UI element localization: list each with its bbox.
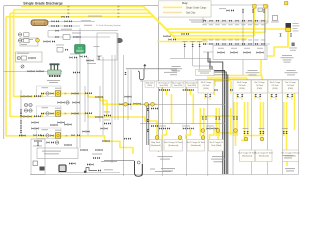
wire yellow left vert 2 <box>10 13 55 116</box>
valve pair lr b <box>259 131 261 134</box>
valve pair on lineD <box>62 16 65 18</box>
valve pair under y37 <box>44 40 47 42</box>
svg-text:No.1 Cargo: No.1 Cargo <box>270 82 281 84</box>
text right edge 1 <box>289 47 297 50</box>
text no1wbt <box>283 59 292 60</box>
pump circles left column <box>24 103 27 106</box>
yellow cap riser 1 <box>253 5 257 9</box>
vent arrow <box>144 64 146 69</box>
svg-text:Tank: Tank <box>78 48 82 50</box>
wire yellow tank drop b <box>230 81 232 94</box>
dark box bl <box>40 167 45 171</box>
label box no3 wbt <box>196 70 215 76</box>
text no1wbt r2 <box>287 74 295 75</box>
valve trio tanklow c <box>207 127 210 129</box>
wire riser L3 <box>200 42 228 75</box>
valve top v1 <box>242 10 244 13</box>
text lr lbl <box>243 127 249 130</box>
text manifold lower lbl <box>261 39 265 42</box>
text manifold upper lbl <box>228 23 232 26</box>
wire yellow top hook b <box>186 86 191 95</box>
wire manifold h1 <box>203 20 268 22</box>
valve row manifold lower <box>203 43 206 45</box>
wire manifold h2 <box>203 43 270 45</box>
valve cluster x88 y113 <box>85 112 88 114</box>
valve left col 0b <box>20 113 22 116</box>
svg-text:No.3 Cargo: No.3 Cargo <box>201 82 212 84</box>
ship manifold connection <box>286 23 292 28</box>
text manifold lower lbl <box>215 39 219 42</box>
valve pair y97 right a <box>125 96 128 98</box>
valve tankcol b <box>147 119 149 122</box>
valve riser <box>184 44 186 47</box>
valve pair above train3 b <box>51 124 54 126</box>
text manifold lower lbl <box>228 39 232 42</box>
text no2 wbt mid <box>212 156 224 157</box>
wire yellow lower pair 3 <box>233 102 235 136</box>
wire yellow tank feed row a <box>207 75 262 77</box>
tank mid line 1 <box>140 103 225 105</box>
tank divider x265 upper <box>264 23 266 60</box>
zigzag pipe bottom <box>84 168 97 173</box>
valve pair x112col a <box>104 114 107 116</box>
text no1wbt r2 <box>285 72 298 73</box>
text right of green <box>87 62 96 65</box>
text train2 label <box>42 107 49 108</box>
wire riser L1 <box>185 42 210 59</box>
deck line y68.8 <box>126 68 177 70</box>
text manifold upper lbl <box>261 23 265 26</box>
text bottom pipe label <box>104 169 113 170</box>
legend box Key <box>159 1 212 17</box>
pump train 2 box <box>37 106 62 116</box>
valve row cylinder line1 <box>52 20 55 22</box>
wire vert x100 <box>99 86 101 122</box>
valve pair between trains b <box>73 101 76 103</box>
valve pair left y96b <box>34 95 37 97</box>
valve pair x86 y131 <box>83 130 86 132</box>
text comp x275 <box>271 21 279 24</box>
svg-text:Single Grade Discharge: Single Grade Discharge <box>23 1 63 5</box>
wire yellow lower pair 2 <box>215 108 217 136</box>
box bottom left tall <box>31 139 45 175</box>
wire yellow right edge dip <box>294 80 296 130</box>
tank divider x298 <box>298 80 300 175</box>
yellow mark top right <box>285 2 288 5</box>
yellow cap riser 2 <box>264 5 268 9</box>
text train1 label <box>42 87 49 88</box>
text manifold upper lbl <box>254 23 258 26</box>
wire yellow tank feed row c <box>207 80 231 82</box>
text cleaning pump 3 <box>21 44 27 45</box>
valve pair lr t2 <box>215 117 217 120</box>
wire yellow top C <box>10 13 254 36</box>
wire vert x128 <box>127 70 129 120</box>
text no3 wbt mid 1 <box>158 156 173 157</box>
svg-text:(P&S): (P&S) <box>257 88 263 90</box>
valve pair lr t1 <box>202 117 204 120</box>
valve x126 <box>124 72 126 75</box>
text no1 bottom <box>284 157 292 158</box>
box top right manifold <box>203 5 268 23</box>
wire bottom left to uloop <box>104 160 135 162</box>
valve pair train2 discharge <box>72 112 75 114</box>
text no3wbt mid <box>170 68 182 69</box>
wire vert x123 <box>123 55 125 176</box>
valve pair y117 <box>96 116 99 118</box>
text x112col a <box>104 111 110 114</box>
svg-text:No.2 Cargo Oil Tank: No.2 Cargo Oil Tank <box>255 153 273 155</box>
valve left col 2 <box>20 126 22 129</box>
valve left col 3 <box>20 130 22 133</box>
yellow flow arrows <box>68 6 70 8</box>
text no4wbt <box>171 70 177 71</box>
valve pair tankarea b <box>151 125 154 127</box>
valve pair under green sq <box>73 71 76 73</box>
valve pair tanktop d <box>230 89 233 91</box>
wire branch y37 <box>48 31 110 37</box>
text no4wbt <box>164 72 177 73</box>
wire manifold h3 <box>203 51 258 53</box>
tank divider x207 <box>207 81 209 176</box>
text no3wbt box 1 <box>198 70 211 73</box>
wire yellow top hook a <box>162 86 167 95</box>
text lr lbl <box>282 127 288 130</box>
wire manifold v1 <box>242 8 244 75</box>
wire yellow lower tank horiz 1 <box>200 115 237 117</box>
valve pair train3 discharge <box>72 134 75 136</box>
valve pair below train3 <box>47 141 50 143</box>
wire yellow right riser 1 <box>253 4 255 36</box>
wire branch y31 <box>48 30 118 32</box>
valve pair below train3 b <box>35 140 38 142</box>
text cleaning pump 2 <box>21 42 30 43</box>
text x112col b <box>104 119 110 122</box>
text cleaning pump 1 <box>21 39 33 40</box>
valve pair on cascade c <box>164 35 167 37</box>
valve pair between trains c <box>58 121 61 123</box>
valve row cylinder line2 <box>52 25 55 27</box>
tank divider x251 <box>251 94 253 175</box>
valve cluster x88 y93 <box>85 92 88 94</box>
valve pair mid left 2 <box>32 127 35 129</box>
svg-text:No.3 Cargo Oil Tank: No.3 Cargo Oil Tank <box>238 153 256 155</box>
wire yellow top A <box>21 7 288 29</box>
box spec cargo pumps <box>37 148 78 159</box>
text y31 label <box>61 29 72 30</box>
text manifold upper lbl <box>202 23 206 26</box>
wire yellow lower tank horiz 2 <box>245 135 264 137</box>
text no1wbt <box>281 57 294 58</box>
svg-text:Oil Tank: Oil Tank <box>287 85 294 87</box>
text u loop left <box>101 161 117 162</box>
valve pair dip <box>237 94 239 97</box>
text riser lbl <box>190 40 195 43</box>
pump train 2 <box>41 112 44 114</box>
text no1 bottom b <box>286 170 294 171</box>
text above trains <box>70 53 79 56</box>
valve in bl box <box>37 143 39 146</box>
wire yellow train2 discharge <box>60 114 157 138</box>
p-trap loop seal <box>138 69 144 80</box>
heavy col x146 <box>147 104 149 145</box>
valve pair on yellow y138 <box>124 138 127 140</box>
text x95 y46 <box>94 45 100 48</box>
wire left y71 <box>4 71 62 73</box>
svg-text:Oil Tank: Oil Tank <box>238 85 245 87</box>
wire yellow dip clusters <box>205 95 210 101</box>
wire yellow train3 discharge <box>60 136 133 154</box>
wire yellow slop drop 1 <box>171 94 173 124</box>
valve tankcol a <box>147 108 149 111</box>
svg-text:Single Grade Cargo: Single Grade Cargo <box>186 7 207 10</box>
wire vert x103 <box>102 57 104 135</box>
tank mid line 2 <box>140 122 225 124</box>
comp x275 y17 <box>273 16 278 21</box>
text top box lbl <box>219 7 226 10</box>
text train3 label <box>42 129 49 130</box>
wire yellow lower pair 6 <box>283 102 285 136</box>
valve pair left y116b <box>34 115 37 117</box>
text line2 label <box>84 25 92 26</box>
wire yellow bottom right hook <box>286 150 288 166</box>
wire yellow top D <box>6 17 247 39</box>
valve pair y97 <box>96 96 99 98</box>
text mr1 <box>293 22 299 25</box>
valve pair tankarea a <box>151 107 154 109</box>
valve top v3 <box>263 10 265 13</box>
yellow circles on y104 <box>124 102 128 106</box>
text train2 pump label <box>55 108 61 109</box>
text no2wbt r <box>246 72 260 73</box>
text manifold lower lbl <box>202 39 206 42</box>
valve pair y71 a <box>28 70 31 72</box>
svg-text:Oil Tank: Oil Tank <box>202 85 209 87</box>
text riser lbl <box>197 40 202 43</box>
text no3wbt mid <box>172 70 180 71</box>
svg-text:No.3 Cargo: No.3 Cargo <box>237 82 248 84</box>
wire manifold v2 <box>253 8 255 60</box>
text tanklow c <box>206 125 214 128</box>
text heater corner <box>97 56 102 57</box>
wire yellow train1 discharge <box>60 94 157 105</box>
tank label boxes upper row <box>145 81 155 87</box>
tank bottom line <box>30 174 299 176</box>
valve pair train3 mid <box>34 134 37 136</box>
svg-text:No.2 Cargo: No.2 Cargo <box>254 82 265 84</box>
svg-text:(P&S): (P&S) <box>203 88 209 90</box>
text no2 wbt mid <box>211 159 225 160</box>
valve pair train1 discharge <box>72 92 75 94</box>
wire yellow top B <box>14 10 266 33</box>
text on lineD <box>88 16 102 17</box>
wire yellow beside bulkhead <box>230 108 232 135</box>
text no2wbt r <box>249 74 257 75</box>
svg-text:Slop Tank: Slop Tank <box>151 142 160 144</box>
text no1wbt <box>282 55 292 56</box>
text no1wbt r2 <box>287 70 296 71</box>
pump train 3 <box>41 134 44 136</box>
valve pair x104 y128 <box>101 127 104 129</box>
text riser lbl <box>182 40 187 43</box>
text manifold upper lbl <box>215 23 219 26</box>
svg-text:(Starboard): (Starboard) <box>168 144 178 147</box>
text tanklow b <box>182 125 190 128</box>
valve pair crossover 3 <box>244 51 247 53</box>
box tank cleaning pump unit <box>16 52 43 62</box>
upper left col symbols <box>18 33 21 36</box>
wire left col vert x21 <box>20 90 22 135</box>
valve pair crossover 1 <box>218 51 221 53</box>
svg-text:No.2 Cargo Oil Tank: No.2 Cargo Oil Tank <box>187 142 205 144</box>
U loop pipe bottom <box>135 161 143 176</box>
tank divider x282 <box>282 94 284 175</box>
wire vert x80 <box>79 28 81 148</box>
legend box Key overlay <box>159 1 212 17</box>
pump train 1 <box>41 92 44 94</box>
box small cleaning pump <box>20 38 38 46</box>
wire riser L2 <box>193 42 212 67</box>
svg-text:(P&S): (P&S) <box>239 88 245 90</box>
text no4wbt <box>170 74 177 75</box>
valve right b <box>290 34 292 37</box>
heater unit pump <box>118 38 122 42</box>
svg-text:(Starboard): (Starboard) <box>150 144 160 147</box>
text no3 wbt stbd <box>161 168 175 169</box>
valve trio tanklow a <box>159 127 162 129</box>
svg-text:Oil Tank: Oil Tank <box>271 85 278 87</box>
text u loop right a <box>150 169 155 170</box>
wire yellow tank drop d <box>261 76 263 94</box>
valve pair x112col b <box>104 122 107 124</box>
pump train 1 box <box>37 86 62 96</box>
box crossover <box>213 46 267 60</box>
svg-text:Tank (Stbd): Tank (Stbd) <box>211 144 222 147</box>
text manifold lower lbl <box>235 39 239 42</box>
text bl box <box>33 145 42 148</box>
valve pair y37 b <box>74 36 77 38</box>
text x99 label <box>92 154 102 155</box>
valve trio tanktop b <box>183 89 186 91</box>
text right edge 2 <box>290 49 296 52</box>
wire yellow lower pair 4 <box>244 102 246 140</box>
svg-text:Tank (P&S): Tank (P&S) <box>159 85 168 87</box>
text train1 pump label <box>55 88 61 89</box>
text mr4 <box>293 30 299 33</box>
valve pair crossover 4 <box>257 51 260 53</box>
tank divider x142 <box>142 81 144 176</box>
valve y31 <box>56 30 59 32</box>
valve riser <box>199 44 201 47</box>
text lr lbl <box>259 127 265 130</box>
valve pair y104 x121 <box>120 103 123 105</box>
yellow tank hooks lower <box>162 130 214 139</box>
valve pair x68 y145 <box>65 144 68 146</box>
svg-text:(Starboard): (Starboard) <box>191 144 201 147</box>
text manifold lower lbl <box>222 39 226 42</box>
text manifold lower lbl <box>248 39 252 42</box>
text stripping pump label <box>47 80 60 81</box>
svg-text:No.3 Cargo Oil: No.3 Cargo Oil <box>210 142 224 144</box>
text no3wbt mid <box>172 66 181 67</box>
valve pair x99 y150 <box>96 149 99 151</box>
wire yellow lower pair 1 <box>199 108 201 136</box>
valve pair lr a <box>243 131 245 134</box>
wire yellow right riser 2 <box>264 4 266 32</box>
text cargo oil pumps spec 1 <box>42 151 61 152</box>
svg-text:(P&S): (P&S) <box>288 88 294 90</box>
valve pair above train3 <box>65 123 68 125</box>
text crossover 4 <box>257 47 263 50</box>
dark framed comp bl <box>59 165 66 172</box>
valve pair on cascade b <box>182 33 185 35</box>
svg-text:Tank (P&S): Tank (P&S) <box>187 85 196 87</box>
yellow dot cleaning pump <box>36 38 40 42</box>
tank divider x186 <box>186 81 188 176</box>
text no3wbt box 2 <box>200 72 209 75</box>
wire vert x112 <box>111 55 113 163</box>
valve pair x96 y158 <box>93 157 96 159</box>
svg-text:No.1 Cargo Oil Tank: No.1 Cargo Oil Tank <box>282 153 300 155</box>
frame container border <box>4 6 159 139</box>
valve pair crossover 2 <box>231 51 234 53</box>
valve riser <box>192 44 194 47</box>
text no3 wbt center <box>155 171 171 172</box>
arrows on train lines <box>65 93 67 95</box>
valve trio tanktop c <box>207 89 210 91</box>
valve trio tanktop a <box>159 89 162 91</box>
svg-text:(P&S): (P&S) <box>147 85 152 87</box>
tank label boxes lower row <box>150 140 162 152</box>
valve trio tanklow b <box>183 127 186 129</box>
text no3 wbt mid 2 <box>160 159 170 160</box>
valve pair lr t3 <box>233 117 235 120</box>
small box left of green <box>57 48 63 53</box>
wire yellow slop drop 2 <box>192 94 194 124</box>
text no2 wbt mid <box>214 161 223 162</box>
wire yellow train1 branch <box>100 97 107 117</box>
wire yellow right edge drop <box>287 32 289 48</box>
text manifold upper lbl <box>209 23 213 26</box>
wire yellow lower tank horiz 3 <box>241 139 248 141</box>
svg-text:Key: Key <box>182 1 188 5</box>
frame right edge wire <box>158 6 160 152</box>
text mr3 <box>293 27 298 30</box>
valve y37 <box>56 36 59 38</box>
slash circle symbol <box>21 65 24 68</box>
text line1 label <box>81 20 91 21</box>
pump train 3 box <box>37 128 62 138</box>
text small box <box>56 44 64 47</box>
valve beside box <box>65 49 68 51</box>
text manifold upper lbl <box>222 23 226 26</box>
valve tankcol c <box>147 129 149 132</box>
yellow marks lower right <box>244 137 248 141</box>
text manifold upper lbl <box>248 23 252 26</box>
valve pair dip <box>255 94 257 97</box>
valve pair x104 y141 <box>103 140 106 142</box>
yellow circles lr <box>201 129 205 133</box>
wire mid y57 <box>170 57 185 59</box>
valve pair dip <box>271 94 273 97</box>
wire yellow manifold low <box>157 41 208 43</box>
text cargo transfer 2 <box>191 22 203 23</box>
valve pair on cascade a <box>169 38 172 40</box>
valve pair dip <box>205 94 207 97</box>
text cargo transfer 1 <box>189 20 205 21</box>
valve right a <box>279 34 281 37</box>
svg-text:(Starboard): (Starboard) <box>242 155 252 158</box>
